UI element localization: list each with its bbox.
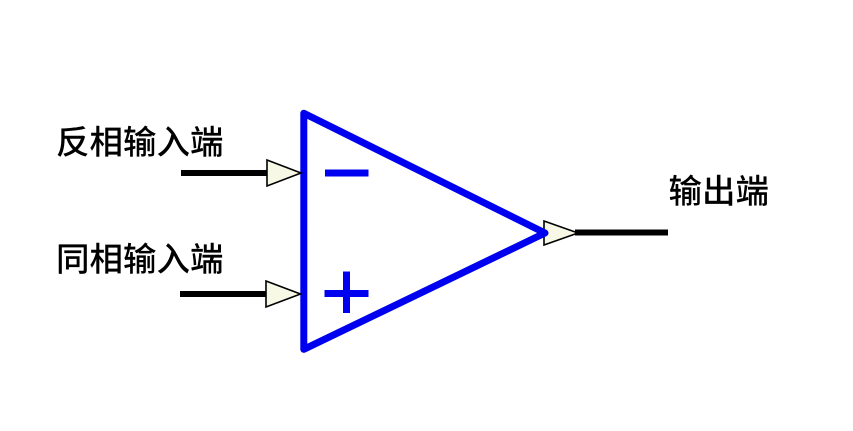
label: 输出端 (output terminal) — [670, 175, 768, 206]
wire: inverting input lead — [181, 170, 272, 176]
label: 反相输入端 (inverting input terminal) — [58, 126, 223, 157]
op-amp inverting input marker (minus) — [325, 170, 369, 177]
op-amp U1 triangle body — [304, 113, 545, 349]
wire: non-inverting input lead — [180, 291, 272, 297]
arrowhead on output at op-amp tip — [544, 221, 578, 245]
arrowhead on inverting input wire — [267, 160, 301, 186]
op-amp non-inverting input marker (plus) — [325, 272, 369, 314]
label: 同相输入端 (non-inverting input terminal) — [59, 243, 222, 274]
wire: output lead — [575, 230, 668, 236]
arrowhead on non-inverting input wire — [266, 281, 301, 307]
